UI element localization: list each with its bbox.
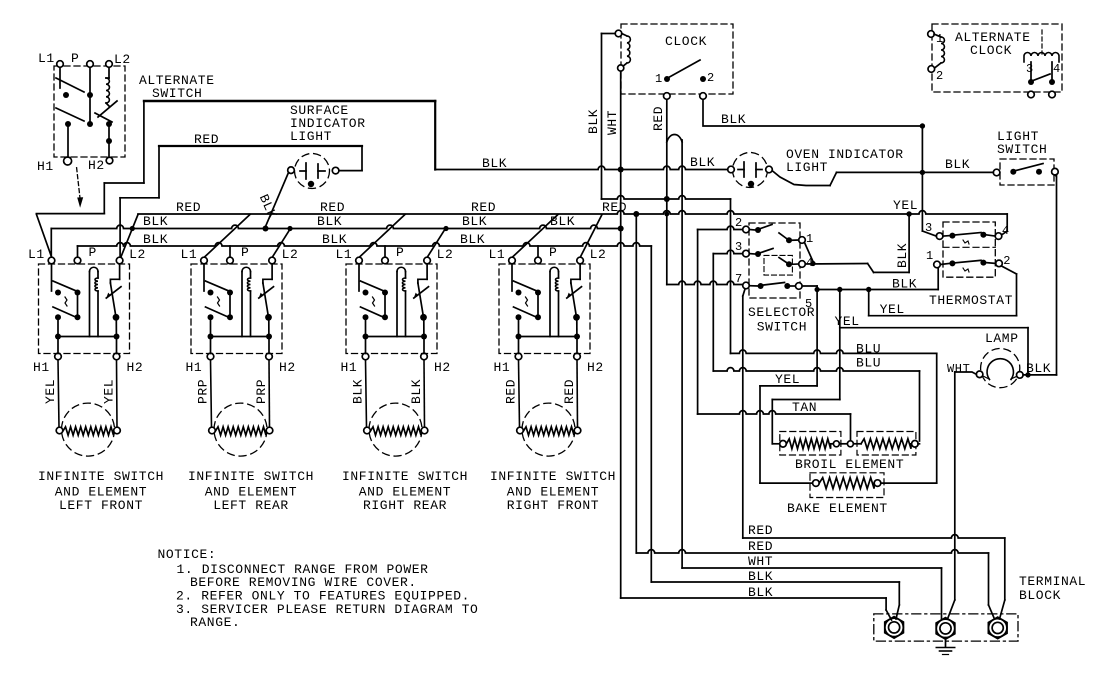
wire diagonal bus-blk to L2 of module 2 bbox=[272, 229, 290, 258]
alternate switch pole 1 (L1 contacts) bbox=[56, 68, 93, 99]
wire RED feeder row2 bbox=[636, 550, 994, 619]
svg-text:L1: L1 bbox=[336, 247, 353, 262]
alternate switch label bbox=[139, 73, 215, 101]
surface indicator light glow dot bbox=[308, 181, 314, 187]
terminal H1 of alternate switch bbox=[37, 157, 72, 174]
svg-text:BLK: BLK bbox=[322, 232, 347, 247]
caption left-front bbox=[38, 469, 164, 513]
svg-text:RED: RED bbox=[194, 132, 219, 147]
svg-text:2: 2 bbox=[936, 69, 944, 83]
light switch label bbox=[997, 129, 1047, 157]
broil element left dashed box bbox=[780, 432, 841, 456]
wire RED trunk from selector 7 to feeder row1 bbox=[743, 289, 745, 538]
svg-text:SWITCH: SWITCH bbox=[757, 320, 807, 335]
svg-text:1: 1 bbox=[926, 249, 934, 263]
label BLK on long run (right) bbox=[690, 155, 715, 170]
label RED left bbox=[504, 379, 519, 404]
right-rear switch pole contacts lower bbox=[361, 293, 389, 321]
clock terminal 2 bbox=[700, 93, 707, 100]
terminal H1 of right-rear switch bbox=[341, 353, 369, 375]
element left-front dashed circle bbox=[62, 403, 115, 456]
wire selector 4 to YEL bus riser bbox=[805, 215, 909, 272]
svg-text:PRP: PRP bbox=[196, 379, 211, 404]
svg-text:RED: RED bbox=[602, 200, 627, 215]
svg-text:INFINITE SWITCH: INFINITE SWITCH bbox=[188, 469, 314, 484]
left-rear switch spring link bbox=[218, 297, 220, 306]
wire TAN trunk x697 (selector 2 to TAN row) bbox=[697, 230, 699, 415]
wire BLU row2 to broil-right bbox=[713, 368, 919, 441]
svg-text:RED: RED bbox=[320, 200, 345, 215]
svg-text:H1: H1 bbox=[37, 159, 54, 174]
label YEL on bus y214 (right) bbox=[893, 198, 918, 213]
thermostat terminal 4 bbox=[995, 224, 1010, 239]
left-rear switch heater hairpin and coil bbox=[211, 267, 270, 336]
svg-text:1: 1 bbox=[806, 232, 814, 246]
wire BLK bus2 trunk at x651 bbox=[650, 246, 652, 582]
svg-text:4: 4 bbox=[1053, 62, 1061, 76]
surface indicator light electrodes bbox=[300, 163, 325, 179]
lamp filament bbox=[987, 359, 1013, 380]
label BLK horizontal below thermostat bbox=[892, 277, 917, 292]
right-front switch pole contacts upper bbox=[512, 264, 541, 296]
svg-text:BLK: BLK bbox=[317, 214, 342, 229]
right-front switch left bottom wire bbox=[516, 317, 522, 353]
selector switch label bbox=[748, 305, 815, 335]
thermostat terminal 1 bbox=[926, 249, 940, 268]
svg-text:LAMP: LAMP bbox=[985, 331, 1019, 346]
label RED row2 bbox=[748, 539, 773, 554]
alternate clock terminal 4 bbox=[1049, 62, 1056, 98]
svg-text:3: 3 bbox=[735, 240, 743, 254]
left-front switch heater hairpin and coil bbox=[58, 267, 117, 336]
svg-text:1: 1 bbox=[655, 72, 663, 86]
light switch terminal left bbox=[993, 169, 1000, 176]
left-front switch pole contacts lower bbox=[53, 293, 81, 321]
wire BLK from clock run down to thermostat 3 bbox=[920, 123, 937, 236]
left-rear switch pole contacts lower bbox=[206, 293, 234, 321]
svg-text:1: 1 bbox=[936, 32, 944, 46]
element left-front resistor bbox=[56, 427, 120, 435]
infinite switch right-front dashed enclosure bbox=[499, 264, 590, 354]
terminal P of alternate switch bbox=[71, 51, 93, 67]
svg-text:L2: L2 bbox=[437, 247, 454, 262]
svg-text:H1: H1 bbox=[494, 360, 511, 375]
wire BLU trunk x730 (row y199 to BLU row1) bbox=[730, 199, 732, 353]
terminal L1 of right-front switch bbox=[489, 247, 516, 264]
wire RED H2 to element bbox=[576, 360, 579, 427]
selector switch dashed enclosure bbox=[749, 223, 800, 298]
wire row y399 broil-left to thermostat riser bbox=[772, 400, 840, 444]
wire bus BLK y246 (P feeder) bbox=[78, 243, 652, 257]
terminal left of oven indicator light bbox=[728, 166, 735, 173]
arrow from alternate switch to infinite switch bbox=[77, 168, 84, 208]
infinite switch left-rear dashed enclosure bbox=[191, 264, 282, 354]
svg-text:BLK: BLK bbox=[895, 243, 910, 268]
svg-text:BLK: BLK bbox=[1026, 361, 1051, 376]
thermostat terminal 3 bbox=[925, 221, 943, 239]
wire WHT trunk from clock coil bottom to feeder row5 bbox=[618, 71, 624, 598]
wire selector 1 drop to terminal-4 wire bbox=[805, 243, 816, 267]
right-rear switch right branch with bimetal arm bbox=[414, 264, 429, 354]
element right-rear resistor bbox=[364, 427, 428, 435]
terminal H2 of right-front switch bbox=[574, 353, 604, 375]
element right-front dashed circle bbox=[522, 403, 575, 456]
wire YEL row a y315 bbox=[869, 290, 1017, 316]
label BLU row1 bbox=[856, 342, 881, 357]
svg-text:BLU: BLU bbox=[856, 342, 881, 357]
caption left-rear bbox=[188, 469, 314, 513]
thermostat lower trip hook bbox=[963, 268, 969, 272]
bake element label bbox=[787, 501, 888, 516]
terminal H2 of right-rear switch bbox=[421, 353, 451, 375]
terminal P of right-front switch bbox=[535, 245, 558, 264]
broil element center junction bbox=[833, 441, 853, 447]
terminal block dash-dot enclosure bbox=[874, 614, 1018, 641]
right-front switch spring link bbox=[526, 297, 528, 306]
label RED right bbox=[562, 379, 577, 404]
svg-text:YEL: YEL bbox=[835, 314, 860, 329]
terminal L1 of right-rear switch bbox=[336, 247, 363, 264]
svg-text:BLK: BLK bbox=[482, 156, 507, 171]
lamp label bbox=[985, 331, 1019, 346]
svg-text:BLOCK: BLOCK bbox=[1019, 588, 1061, 603]
terminal H2 of left-front switch bbox=[113, 353, 143, 375]
label RED row1 bbox=[748, 523, 773, 538]
wire bus y214 drop to thermostat terminal 4 bbox=[1002, 214, 1008, 235]
wire BLK long run to oven indicator light bbox=[435, 166, 728, 172]
svg-text:H2: H2 bbox=[279, 360, 296, 375]
surface indicator light DS1 (dashed circle) bbox=[295, 154, 330, 189]
svg-text:BROIL ELEMENT: BROIL ELEMENT bbox=[795, 457, 904, 472]
alternate clock contacts bbox=[1028, 74, 1055, 85]
right-front switch heater hairpin and coil bbox=[519, 267, 578, 336]
terminal H1 of left-rear switch bbox=[186, 353, 214, 375]
clock switch arm bbox=[670, 60, 701, 77]
svg-text:BLK: BLK bbox=[550, 214, 575, 229]
wire BLK from oven indicator light to light switch bbox=[772, 170, 993, 186]
wire thermostat 1 down to row y289 bbox=[817, 268, 938, 292]
terminal P of left-front switch bbox=[74, 245, 97, 264]
wire RED from surface indicator light to L2 of left-front switch bbox=[120, 146, 362, 257]
label YEL on row b bbox=[835, 314, 860, 329]
right-rear switch pole contacts upper bbox=[359, 264, 388, 296]
terminal L2 of left-front switch bbox=[116, 247, 146, 264]
terminal block lug left bbox=[885, 617, 904, 639]
light switch dashed enclosure bbox=[1000, 159, 1054, 185]
wire RED H1 to element bbox=[519, 360, 520, 427]
selector terminal 3 bbox=[735, 240, 761, 257]
wire BLK H2 to element bbox=[423, 360, 426, 427]
wire bus BLK y228 (L1/L2 feeder) bbox=[51, 225, 620, 256]
alternate switch wire to H1 bbox=[67, 127, 69, 157]
terminal L2 of left-rear switch bbox=[269, 247, 299, 264]
svg-text:CLOCK: CLOCK bbox=[665, 34, 707, 49]
wire BLK light switch to lamp bbox=[1023, 175, 1056, 375]
wire BLK from surface indicator light down to bus (diagonal) bbox=[263, 173, 289, 232]
svg-text:RED: RED bbox=[562, 379, 577, 404]
wire thermostat 2 to YEL row a bbox=[1002, 266, 1017, 316]
alternate switch P wire bbox=[89, 68, 91, 93]
svg-text:RIGHT REAR: RIGHT REAR bbox=[363, 498, 447, 513]
svg-text:RED: RED bbox=[504, 379, 519, 404]
infinite switch right-rear dashed enclosure bbox=[346, 264, 437, 354]
thermostat upper trip hook bbox=[963, 240, 969, 244]
svg-text:LEFT REAR: LEFT REAR bbox=[213, 498, 289, 513]
svg-text:YEL: YEL bbox=[880, 302, 905, 317]
wire diagonal bus-red to L1 of module 2 bbox=[204, 215, 250, 258]
label WHT vertical at x620 bbox=[605, 110, 620, 135]
svg-text:RED: RED bbox=[651, 106, 666, 131]
svg-text:INFINITE SWITCH: INFINITE SWITCH bbox=[342, 469, 468, 484]
wire diagonal bus-blk to L2 of module 3 bbox=[427, 229, 445, 258]
notice text bbox=[158, 547, 479, 630]
terminal L1 of left-front switch bbox=[28, 247, 55, 264]
alternate switch lower contacts bbox=[106, 121, 112, 157]
wire P riser module 2 bbox=[229, 246, 231, 257]
svg-text:YEL: YEL bbox=[102, 379, 117, 404]
label BLK vertical at thermostat bbox=[895, 243, 910, 268]
wire row y199 from x601 to BLU riser bbox=[602, 196, 731, 199]
label YEL on row a bbox=[880, 302, 905, 317]
svg-text:SWITCH: SWITCH bbox=[152, 86, 202, 101]
svg-text:TERMINAL: TERMINAL bbox=[1019, 574, 1086, 589]
left-rear switch pole contacts upper bbox=[204, 264, 233, 296]
svg-text:H2: H2 bbox=[587, 360, 604, 375]
thermostat dashed enclosure bbox=[943, 222, 995, 277]
wire selector 3 row bbox=[713, 250, 742, 253]
wire RED from clock terminal 1 down to selector switch 7 row bbox=[664, 100, 670, 285]
svg-text:WHT: WHT bbox=[947, 362, 970, 376]
label RED on bus y214 (module area) bbox=[176, 200, 627, 215]
right-rear switch heater hairpin and coil bbox=[366, 267, 425, 336]
svg-text:4: 4 bbox=[1002, 224, 1010, 238]
wire BLK feeder row4 bbox=[651, 582, 899, 619]
svg-text:L1: L1 bbox=[28, 247, 45, 262]
svg-text:TAN: TAN bbox=[792, 400, 817, 415]
svg-text:L2: L2 bbox=[129, 247, 146, 262]
svg-text:H2: H2 bbox=[88, 158, 105, 173]
svg-text:H2: H2 bbox=[127, 360, 144, 375]
wire PRP H2 to element bbox=[268, 360, 271, 427]
terminal block lug middle bbox=[936, 618, 955, 640]
svg-text:LIGHT: LIGHT bbox=[786, 160, 828, 175]
svg-text:BLK: BLK bbox=[460, 232, 485, 247]
svg-text:RED: RED bbox=[471, 200, 496, 215]
wire selector 7 row bbox=[667, 281, 743, 284]
svg-text:P: P bbox=[89, 245, 97, 260]
svg-text:P: P bbox=[71, 51, 79, 66]
bake element resistor bbox=[813, 478, 881, 489]
wire PRP H1 to element bbox=[211, 360, 212, 427]
selector switch inner dashed box bbox=[764, 255, 792, 275]
terminal H1 of right-front switch bbox=[494, 353, 522, 375]
svg-text:BLK: BLK bbox=[351, 379, 366, 404]
oven indicator light electrodes bbox=[738, 162, 762, 177]
label BLK on surface light diagonal bbox=[256, 192, 280, 221]
thermostat lower contacts bbox=[940, 260, 995, 267]
svg-text:WHT: WHT bbox=[605, 110, 620, 135]
wire YEL H1 to element bbox=[58, 360, 59, 427]
clock label bbox=[665, 34, 707, 49]
label WHT row3 bbox=[748, 554, 773, 569]
selector terminal 2 bbox=[735, 216, 761, 233]
label BLK row5 bbox=[748, 585, 773, 600]
alternate clock label bbox=[955, 30, 1031, 58]
thermostat label bbox=[929, 293, 1013, 308]
terminal right of oven indicator light bbox=[766, 166, 773, 173]
label BLK on bus y228 bbox=[143, 214, 575, 229]
svg-text:BLK: BLK bbox=[748, 569, 773, 584]
label WHT at lamp bbox=[947, 362, 970, 376]
broil element right resistor bbox=[853, 439, 919, 449]
wire diagonal bus-red to L1 of module 3 bbox=[359, 215, 405, 258]
light switch terminal right bbox=[1052, 168, 1059, 175]
left-front switch spring link bbox=[65, 297, 67, 306]
caption right-front bbox=[490, 469, 616, 513]
terminal L2 of right-rear switch bbox=[424, 247, 454, 264]
svg-text:RED: RED bbox=[748, 539, 773, 554]
wire TAN row to broil-center bbox=[698, 411, 851, 441]
lamp terminal left bbox=[976, 371, 989, 379]
terminal L2 of right-front switch bbox=[577, 247, 607, 264]
clock motor coil bbox=[615, 30, 630, 71]
label RED on surface-light wire bbox=[194, 132, 219, 147]
wire RED feeder row1 bbox=[743, 535, 1005, 619]
svg-text:YEL: YEL bbox=[775, 372, 800, 387]
terminal H2 of left-rear switch bbox=[266, 353, 296, 375]
svg-text:BLU: BLU bbox=[856, 356, 881, 371]
svg-text:BLK: BLK bbox=[143, 232, 168, 247]
svg-text:H1: H1 bbox=[341, 360, 358, 375]
svg-text:BLK: BLK bbox=[945, 157, 970, 172]
svg-text:P: P bbox=[396, 245, 404, 260]
selector terminals 7-5 contact row bbox=[749, 283, 795, 290]
element left-rear dashed circle bbox=[214, 403, 267, 456]
label RED vertical at x666 bbox=[651, 106, 666, 131]
wire BLK from clock coil top (vertical x601) bbox=[602, 34, 616, 200]
wire BLU trunk x713 (selector 3 to BLU row2) bbox=[712, 254, 714, 371]
svg-text:L1: L1 bbox=[38, 51, 55, 66]
oven indicator light glow dot bbox=[748, 181, 754, 187]
label BLU row2 bbox=[856, 356, 881, 371]
left-rear switch right branch with bimetal arm bbox=[259, 264, 274, 354]
label YEL right bbox=[102, 379, 117, 404]
svg-text:L2: L2 bbox=[114, 52, 131, 67]
svg-text:3: 3 bbox=[1026, 62, 1034, 76]
svg-text:2: 2 bbox=[735, 216, 743, 230]
right-front switch pole contacts lower bbox=[514, 293, 542, 321]
ground symbol at terminal block bbox=[936, 638, 954, 655]
light switch contacts bbox=[1010, 164, 1043, 175]
svg-text:INFINITE SWITCH: INFINITE SWITCH bbox=[38, 469, 164, 484]
terminal L2 of alternate switch bbox=[106, 52, 131, 67]
wire diagonal from L2 right-front to red bus corner bbox=[580, 215, 602, 258]
svg-text:5: 5 bbox=[805, 297, 813, 311]
bake element dashed box bbox=[810, 473, 884, 498]
svg-text:2: 2 bbox=[707, 71, 715, 85]
label YEL left bbox=[43, 379, 58, 404]
wire riser x839 down to broil-left row bbox=[839, 290, 841, 400]
wire RED/YEL top bus y214 bbox=[121, 211, 1008, 258]
svg-text:BLK: BLK bbox=[690, 155, 715, 170]
label BLK row4 bbox=[748, 569, 773, 584]
clock contact 1 bbox=[655, 72, 670, 86]
label YEL oven row bbox=[775, 372, 800, 387]
svg-text:P: P bbox=[549, 245, 557, 260]
label BLK right bbox=[409, 379, 424, 404]
oven indicator light DS2 (dashed circle) bbox=[733, 153, 768, 188]
wire trunk x682 down to WHT feeder row3 bbox=[681, 140, 683, 568]
wire YEL H2 to element bbox=[116, 360, 119, 427]
terminal L1 of left-rear switch bbox=[181, 247, 208, 264]
left-front switch left bottom wire bbox=[55, 317, 61, 353]
wire BLK feeder row5 bbox=[621, 598, 892, 620]
svg-text:THERMOSTAT: THERMOSTAT bbox=[929, 293, 1013, 308]
svg-text:L2: L2 bbox=[282, 247, 299, 262]
thermostat upper contacts bbox=[943, 232, 995, 239]
alternate clock dashed enclosure bbox=[932, 24, 1062, 92]
left-front switch right branch with bimetal arm bbox=[106, 264, 121, 354]
clock contact 2 bbox=[700, 71, 715, 85]
svg-text:BLK: BLK bbox=[586, 109, 601, 134]
broil element left resistor bbox=[780, 439, 833, 449]
svg-text:INFINITE SWITCH: INFINITE SWITCH bbox=[490, 469, 616, 484]
svg-text:WHT: WHT bbox=[748, 554, 773, 569]
selector terminal 5 bbox=[796, 283, 813, 311]
infinite switch left-front dashed enclosure bbox=[39, 264, 130, 354]
alternate switch SW-ALT (dashed enclosure) bbox=[54, 66, 125, 157]
label BLK before light switch bbox=[945, 157, 970, 172]
terminal right of surface indicator light bbox=[332, 167, 339, 174]
svg-text:P: P bbox=[241, 245, 249, 260]
terminal H1 of left-front switch bbox=[33, 353, 61, 375]
left-rear switch left bottom wire bbox=[208, 317, 214, 353]
label BLK on bus y246 bbox=[143, 232, 485, 247]
svg-text:RED: RED bbox=[748, 523, 773, 538]
terminal P of right-rear switch bbox=[382, 245, 405, 264]
broil element right dashed box bbox=[857, 432, 916, 456]
lamp dashed circle bbox=[981, 349, 1020, 388]
label BLK on long run (left) bbox=[482, 156, 507, 171]
clock dashed enclosure bbox=[621, 24, 733, 94]
svg-text:CLOCK: CLOCK bbox=[970, 43, 1012, 58]
svg-text:NOTICE:: NOTICE: bbox=[158, 547, 217, 562]
alternate clock contact labels bbox=[1026, 62, 1061, 76]
terminal L1 of alternate switch bbox=[38, 51, 63, 67]
wire diagonal bus-red to L1 of module 4 bbox=[512, 215, 558, 258]
svg-text:BAKE ELEMENT: BAKE ELEMENT bbox=[787, 501, 888, 516]
label PRP left bbox=[196, 379, 211, 404]
svg-text:YEL: YEL bbox=[893, 198, 918, 213]
element right-rear dashed circle bbox=[369, 403, 422, 456]
svg-text:LEFT FRONT: LEFT FRONT bbox=[59, 498, 143, 513]
svg-text:BLK: BLK bbox=[409, 379, 424, 404]
svg-text:H2: H2 bbox=[434, 360, 451, 375]
right-rear switch spring link bbox=[373, 297, 375, 306]
svg-text:RIGHT FRONT: RIGHT FRONT bbox=[507, 498, 599, 513]
lamp terminal right bbox=[1011, 372, 1023, 379]
wire selector 2 row bbox=[698, 226, 743, 229]
svg-text:RANGE.: RANGE. bbox=[190, 615, 240, 630]
svg-text:BLK: BLK bbox=[256, 192, 280, 221]
left-front switch pole contacts upper bbox=[52, 264, 81, 296]
svg-text:YEL: YEL bbox=[43, 379, 58, 404]
terminal left of surface indicator light bbox=[288, 167, 295, 174]
label BLK on clock wire bbox=[721, 112, 746, 127]
label BLK left bbox=[351, 379, 366, 404]
svg-text:RED: RED bbox=[176, 200, 201, 215]
terminal H2 of alternate switch bbox=[88, 157, 113, 173]
